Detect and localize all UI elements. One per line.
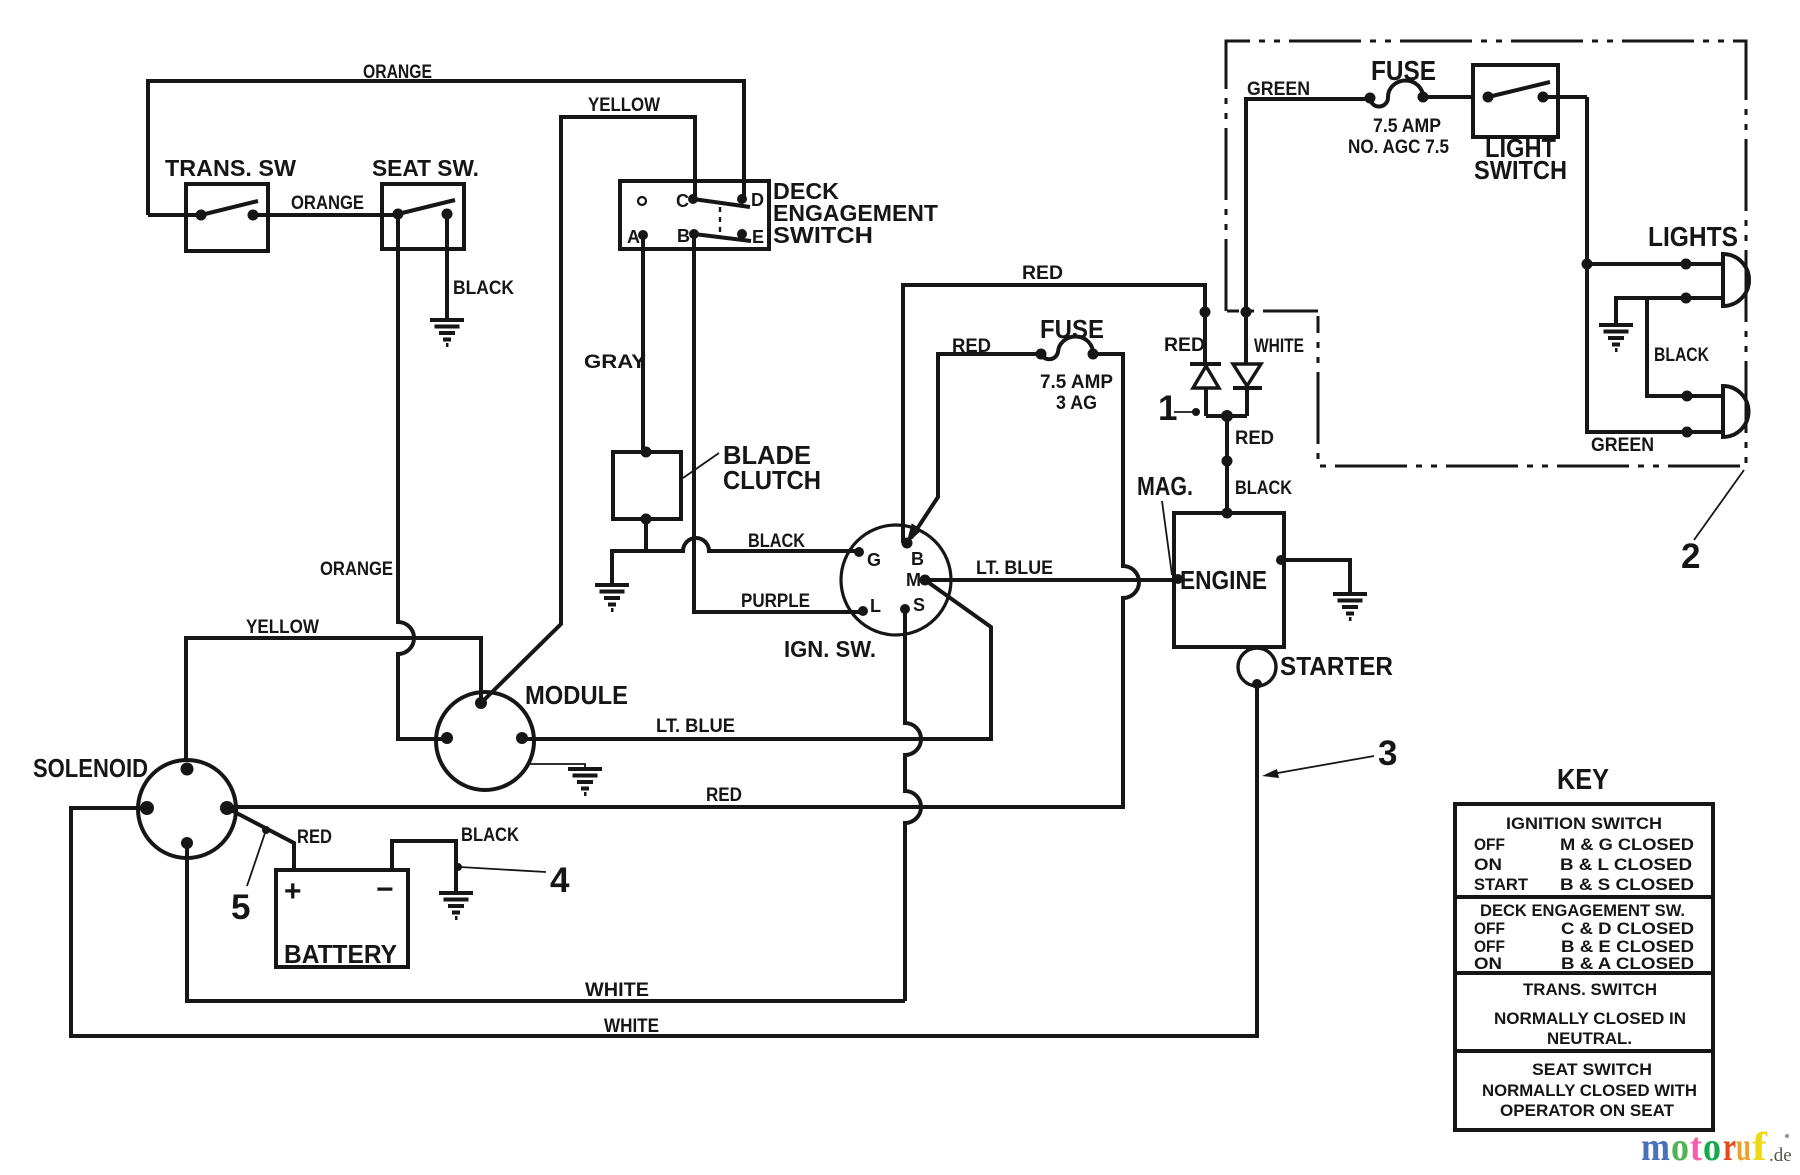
svg-text:2: 2 xyxy=(1681,537,1700,576)
engine box xyxy=(1173,508,1286,648)
svg-text:SEAT SW.: SEAT SW. xyxy=(372,155,479,181)
ground seat switch xyxy=(430,320,464,345)
wire YELLOW mid run solenoid to module xyxy=(186,638,481,760)
svg-text:RED: RED xyxy=(297,827,332,848)
svg-text:BLACK: BLACK xyxy=(453,278,514,299)
key table xyxy=(1455,764,1713,1130)
svg-text:D: D xyxy=(751,190,764,210)
fuse 7.5 AMP 3 AG xyxy=(1036,314,1114,414)
deck engagement switch xyxy=(620,178,938,249)
svg-text:GREEN: GREEN xyxy=(1247,79,1310,100)
svg-text:3: 3 xyxy=(1378,734,1397,773)
wire BLACK seat switch to ground xyxy=(445,214,449,320)
svg-text:G: G xyxy=(867,550,881,570)
wire RED main from fuse down to solenoid with hop over lt blue xyxy=(227,354,1139,807)
svg-text:1: 1 xyxy=(1158,389,1177,428)
svg-text:RED: RED xyxy=(1164,335,1205,356)
svg-text:B & S CLOSED: B & S CLOSED xyxy=(1560,875,1694,894)
svg-text:NO. AGC 7.5: NO. AGC 7.5 xyxy=(1348,137,1449,158)
svg-text:S: S xyxy=(913,595,925,615)
svg-text:FUSE: FUSE xyxy=(1040,314,1104,344)
wire ORANGE seat switch down to module with hop xyxy=(398,214,447,739)
svg-text:−: − xyxy=(376,873,394,906)
svg-text:4: 4 xyxy=(550,861,570,900)
diode red (left) xyxy=(1164,307,1221,417)
svg-text:DECK ENGAGEMENT SW.: DECK ENGAGEMENT SW. xyxy=(1480,901,1685,920)
motoruf.de watermark logo xyxy=(1641,1124,1792,1169)
svg-text:PURPLE: PURPLE xyxy=(741,591,810,612)
svg-text:MAG.: MAG. xyxy=(1137,471,1193,501)
wire ign S down to white run with hops xyxy=(905,609,921,1001)
svg-text:f: f xyxy=(1752,1124,1768,1169)
svg-text:M & G CLOSED: M & G CLOSED xyxy=(1560,835,1694,854)
wire LT. BLUE ign M to engine xyxy=(925,578,1174,582)
svg-text:ORANGE: ORANGE xyxy=(363,62,432,83)
dash-dot boundary box 2 xyxy=(1226,41,1746,466)
svg-text:TRANS. SWITCH: TRANS. SWITCH xyxy=(1523,980,1657,999)
svg-text:+: + xyxy=(284,875,302,908)
svg-text:RED: RED xyxy=(1022,263,1063,284)
svg-text:LT. BLUE: LT. BLUE xyxy=(976,558,1053,579)
ground main junction xyxy=(595,585,629,610)
svg-text:OPERATOR ON SEAT: OPERATOR ON SEAT xyxy=(1500,1101,1675,1120)
wire orange row trans-seat xyxy=(148,213,398,217)
svg-text:B: B xyxy=(911,549,924,569)
svg-text:ON: ON xyxy=(1474,954,1502,973)
wire ORANGE top run xyxy=(148,81,744,215)
svg-text:SEAT SWITCH: SEAT SWITCH xyxy=(1532,1060,1652,1079)
svg-text:BLACK: BLACK xyxy=(1654,345,1709,366)
wire RED fuse branch to ign B with arrow xyxy=(911,354,1041,538)
fuse NO. AGC 7.5 xyxy=(1348,55,1449,158)
trans switch TRANS. SW xyxy=(165,155,296,251)
wire ign M diagonal to module lt blue run xyxy=(522,580,991,739)
module circle xyxy=(436,680,628,790)
svg-text:B: B xyxy=(677,226,690,246)
svg-text:E: E xyxy=(752,227,764,247)
svg-text:STARTER: STARTER xyxy=(1280,651,1393,681)
svg-text:RED: RED xyxy=(952,336,991,357)
svg-text:BATTERY: BATTERY xyxy=(284,939,397,969)
svg-text:NEUTRAL.: NEUTRAL. xyxy=(1547,1029,1632,1048)
svg-text:CLUTCH: CLUTCH xyxy=(723,465,821,495)
lamp 2 xyxy=(1723,386,1748,437)
svg-text:LT. BLUE: LT. BLUE xyxy=(656,716,735,737)
svg-text:YELLOW: YELLOW xyxy=(246,617,319,638)
seat switch SEAT SW. xyxy=(372,155,479,249)
svg-text:o: o xyxy=(1703,1124,1721,1169)
svg-text:FUSE: FUSE xyxy=(1371,55,1436,86)
svg-text:RED: RED xyxy=(706,785,742,806)
engine ground xyxy=(1281,560,1350,594)
wire BLACK lamps to ground xyxy=(1616,298,1723,396)
svg-text:NORMALLY CLOSED WITH: NORMALLY CLOSED WITH xyxy=(1482,1081,1697,1100)
svg-text:WHITE: WHITE xyxy=(1254,336,1304,357)
svg-text:u: u xyxy=(1736,1124,1751,1169)
svg-text:IGN. SW.: IGN. SW. xyxy=(784,636,876,662)
svg-text:GRAY: GRAY xyxy=(584,352,646,373)
svg-text:YELLOW: YELLOW xyxy=(588,95,660,116)
svg-text:GREEN: GREEN xyxy=(1591,435,1654,456)
light switch xyxy=(1423,65,1587,185)
svg-text:BLACK: BLACK xyxy=(461,825,519,846)
svg-text:C: C xyxy=(676,191,689,211)
svg-text:3 AG: 3 AG xyxy=(1056,393,1097,414)
svg-text:START: START xyxy=(1474,875,1529,894)
svg-text:WHITE: WHITE xyxy=(604,1016,659,1037)
wire PURPLE deck B to ign L xyxy=(694,234,860,612)
svg-text:SOLENOID: SOLENOID xyxy=(33,753,148,783)
svg-text:BLACK: BLACK xyxy=(1235,478,1292,499)
svg-text:IGNITION SWITCH: IGNITION SWITCH xyxy=(1506,814,1662,833)
svg-text:ON: ON xyxy=(1474,855,1502,874)
svg-text:TRANS. SW: TRANS. SW xyxy=(165,155,296,181)
module ground wire xyxy=(528,764,585,769)
blade clutch box xyxy=(613,440,821,525)
wire GRAY deck A to blade clutch xyxy=(641,235,645,452)
wire WHITE2 solenoid left to starter xyxy=(71,684,1257,1036)
wire RED top run to diodes xyxy=(903,285,1205,543)
wire RED solenoid to battery xyxy=(227,808,294,870)
wire GREEN switch to lamps xyxy=(1587,97,1723,432)
svg-text:LIGHTS: LIGHTS xyxy=(1648,221,1738,252)
svg-text:ENGINE: ENGINE xyxy=(1180,565,1267,595)
svg-text:OFF: OFF xyxy=(1474,835,1505,854)
svg-text:A: A xyxy=(627,227,640,247)
svg-text:L: L xyxy=(870,596,881,616)
svg-text:RED: RED xyxy=(1235,428,1274,449)
solenoid circle xyxy=(33,753,236,858)
svg-text:MODULE: MODULE xyxy=(525,680,628,710)
svg-text:NORMALLY CLOSED IN: NORMALLY CLOSED IN xyxy=(1494,1009,1686,1028)
svg-text:WHITE: WHITE xyxy=(585,980,649,1001)
svg-text:KEY: KEY xyxy=(1557,764,1609,796)
svg-text:SWITCH: SWITCH xyxy=(773,222,873,248)
svg-text:OFF: OFF xyxy=(1474,919,1505,938)
svg-text:7.5 AMP: 7.5 AMP xyxy=(1373,116,1441,137)
svg-text:m: m xyxy=(1641,1124,1670,1169)
battery xyxy=(276,870,408,969)
wire YELLOW top run xyxy=(483,117,695,701)
wire GREEN top run xyxy=(1246,99,1370,312)
svg-text:t: t xyxy=(1690,1124,1703,1169)
starter circle xyxy=(1238,648,1276,686)
ground lights xyxy=(1599,325,1633,350)
svg-text:5: 5 xyxy=(231,888,250,927)
svg-text:BLACK: BLACK xyxy=(748,531,805,552)
svg-text:C & D CLOSED: C & D CLOSED xyxy=(1561,919,1694,938)
svg-text:7.5 AMP: 7.5 AMP xyxy=(1040,372,1113,393)
wire BLACK clutch junction to ign G with hop xyxy=(612,519,859,585)
svg-text:o: o xyxy=(1671,1124,1689,1169)
lamp 1 xyxy=(1723,254,1749,306)
svg-text:B & A CLOSED: B & A CLOSED xyxy=(1561,954,1694,973)
svg-text:B & L CLOSED: B & L CLOSED xyxy=(1560,855,1692,874)
svg-text:M: M xyxy=(906,570,921,590)
svg-text:.de: .de xyxy=(1769,1145,1792,1166)
svg-text:SWITCH: SWITCH xyxy=(1474,155,1567,185)
wire BLACK battery minus to ground xyxy=(392,841,456,893)
ignition switch IGN. SW. xyxy=(784,525,951,662)
wire WHITE1 solenoid bottom to ign S xyxy=(187,843,905,1001)
svg-text:r: r xyxy=(1723,1124,1736,1169)
node 1 junction and wire to engine xyxy=(1206,416,1247,513)
svg-text:ORANGE: ORANGE xyxy=(320,559,393,580)
svg-text:ORANGE: ORANGE xyxy=(291,193,364,214)
diode white (right) xyxy=(1233,99,1304,416)
